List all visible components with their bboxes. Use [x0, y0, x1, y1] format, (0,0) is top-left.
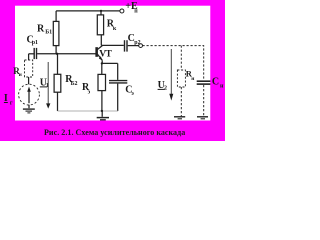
- svg-text:р2: р2: [134, 40, 140, 46]
- svg-text:C: C: [212, 76, 219, 87]
- svg-text:р1: р1: [32, 40, 38, 46]
- svg-text:1: 1: [46, 83, 49, 89]
- svg-text:R: R: [37, 23, 45, 34]
- svg-text:Б2: Б2: [71, 81, 78, 87]
- svg-text:г: г: [10, 101, 13, 107]
- svg-text:2: 2: [164, 86, 167, 92]
- svg-text:э: э: [88, 90, 91, 96]
- svg-text:к: к: [113, 26, 117, 32]
- svg-text:VT: VT: [99, 49, 112, 59]
- svg-text:н: н: [220, 84, 224, 90]
- svg-text:Б1: Б1: [45, 30, 52, 36]
- svg-text:э: э: [131, 91, 134, 97]
- svg-text:п: п: [134, 9, 138, 15]
- svg-text:I: I: [4, 93, 8, 104]
- svg-text:Рис. 2.1. Схема усилительного: Рис. 2.1. Схема усилительного каскада: [44, 128, 185, 137]
